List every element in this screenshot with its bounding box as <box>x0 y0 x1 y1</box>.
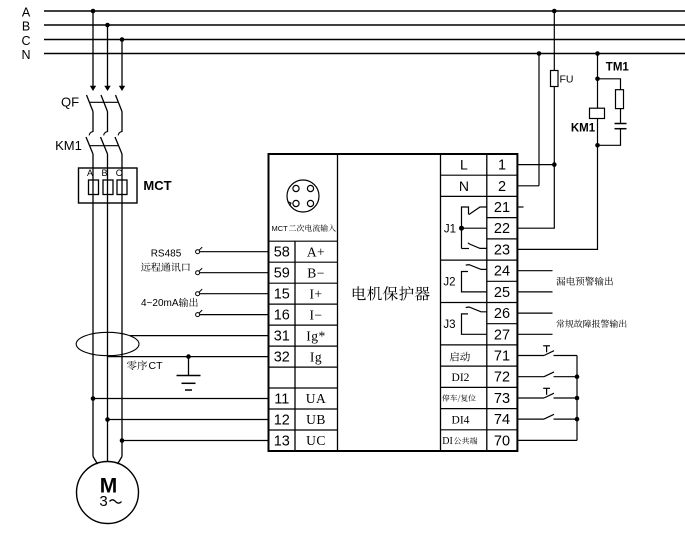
phase bus line A <box>44 10 685 12</box>
divider center/right labels <box>440 154 442 451</box>
4-20mA label CJK <box>179 298 198 307</box>
svg-text:UA: UA <box>306 391 327 406</box>
terminal number 1 right <box>498 158 506 174</box>
right label divider y429.8 <box>441 429 487 431</box>
terminal number 25 right <box>494 285 510 301</box>
terminal number 58 <box>274 245 290 261</box>
svg-text:26: 26 <box>494 306 510 322</box>
svg-text:15: 15 <box>274 287 290 303</box>
label gonggongduan CJK <box>454 437 478 444</box>
phase bus line C <box>44 39 685 41</box>
left block divider 5 <box>269 345 338 347</box>
svg-text:I−: I− <box>309 307 322 322</box>
wire KM1 bottom to terminal 23 <box>517 145 597 249</box>
svg-text:B: B <box>101 168 107 178</box>
phase bus label B <box>22 20 30 34</box>
svg-text:UC: UC <box>306 433 326 448</box>
contactor KM1 pole B fixed contact arc <box>104 132 108 136</box>
connector pin 2 <box>307 185 313 191</box>
wire 32 junction to ground <box>186 354 191 359</box>
terminal number 23 right <box>494 242 510 258</box>
right label divider y344.9 <box>441 344 487 346</box>
node DI3 bus <box>575 396 580 401</box>
CT MCT window C <box>117 180 127 195</box>
wire terminal 1 to FU node <box>517 164 554 166</box>
contactor KM1 pole C fixed contact arc <box>118 132 122 136</box>
phase bus label N <box>21 48 30 62</box>
svg-text:DI4: DI4 <box>452 414 470 426</box>
svg-text:J2: J2 <box>443 276 455 288</box>
right number divider y366.1 <box>487 365 518 367</box>
svg-text:RS485: RS485 <box>151 248 182 259</box>
junction on bus N at terminal-2 drop <box>537 51 542 56</box>
switch DI4 (74) <box>517 414 577 419</box>
wire phase A into motor <box>93 457 98 465</box>
terminal number 16 <box>274 308 290 324</box>
wire drop from bus C to QF <box>121 40 123 87</box>
terminal label A+ <box>307 244 325 259</box>
divider right labels/numbers <box>486 154 488 451</box>
breaker QF linkage bar <box>90 101 119 103</box>
divider left labels/center <box>337 154 339 451</box>
open terminal circle 15 <box>196 289 203 296</box>
motor M circle <box>77 462 139 524</box>
protector title CJK <box>353 286 430 300</box>
breaker QF pole A blade <box>87 95 94 112</box>
connector pin 4 <box>307 200 313 206</box>
right number divider y344.9 <box>487 344 518 346</box>
left block divider 6 <box>269 366 338 368</box>
node DI4 bus <box>575 417 580 422</box>
svg-text:25: 25 <box>494 285 510 301</box>
svg-text:32: 32 <box>274 350 290 366</box>
right number divider y196.4 <box>487 195 518 197</box>
CT MCT label A <box>87 168 93 178</box>
connector caption MCT <box>272 224 289 233</box>
terminal number 70 right <box>494 433 510 449</box>
svg-text:A+: A+ <box>307 244 325 259</box>
fuse FU body <box>551 71 559 87</box>
svg-text:C: C <box>21 34 30 48</box>
left block divider 9 <box>269 429 338 431</box>
svg-text:FU: FU <box>560 74 574 86</box>
RS485 port label CJK <box>141 262 190 271</box>
arrowhead A <box>90 86 96 91</box>
connector pin 1 <box>293 185 299 191</box>
connector pin 3 <box>293 200 299 206</box>
svg-text:73: 73 <box>494 391 510 407</box>
wire phase B into motor <box>107 457 109 462</box>
relay J2 label <box>443 276 455 288</box>
fuse FU label <box>560 74 574 86</box>
wire terminal 27 stub <box>517 333 552 335</box>
wire DI common (70) <box>517 439 577 441</box>
svg-text:71: 71 <box>494 349 510 365</box>
terminal number 13 <box>274 434 290 450</box>
terminal label Ig* <box>306 328 326 343</box>
svg-text:16: 16 <box>274 308 290 324</box>
label leakage-warning output <box>556 277 612 286</box>
relay J2 frame <box>462 272 487 292</box>
right number divider y429.8 <box>487 429 518 431</box>
4-20mA label latin <box>141 298 179 309</box>
svg-text:74: 74 <box>494 412 510 428</box>
wire phase A vertical <box>92 154 94 457</box>
junction on bus N at KM1 coil drop <box>595 51 600 56</box>
svg-text:J3: J3 <box>443 319 455 331</box>
left block divider 2 <box>269 282 338 284</box>
capacitor plate top <box>615 123 627 125</box>
terminal number 21 right <box>494 200 510 216</box>
right number divider y281.3 <box>487 280 518 282</box>
node KM1 top <box>595 77 600 82</box>
wire N drop vertical <box>538 54 540 186</box>
terminal number 73 right <box>494 391 510 407</box>
label DI2 <box>452 372 470 384</box>
junction on bus A <box>91 9 96 14</box>
relay J1 NC blade to 21 <box>469 207 487 215</box>
relay J2 blade <box>466 265 487 270</box>
terminal number 24 right <box>494 264 510 280</box>
svg-text:12: 12 <box>274 413 290 429</box>
contactor KM1 pole A fixed contact arc <box>89 132 93 136</box>
terminal number 12 <box>274 413 290 429</box>
breaker QF pole A post <box>92 112 94 133</box>
relay J1 NO hook <box>462 248 470 250</box>
label fault-alarm output <box>556 320 626 328</box>
svg-text:21: 21 <box>494 200 510 216</box>
contactor KM1 pole B blade <box>101 137 108 154</box>
terminal label UB <box>306 412 326 427</box>
terminal label I− <box>309 307 322 322</box>
motor 3-phase mark <box>99 493 121 510</box>
wire drop from bus A to QF <box>92 11 94 86</box>
right label divider y175.2 <box>441 174 487 176</box>
capacitor plate bottom <box>615 128 627 130</box>
svg-text:I+: I+ <box>309 286 322 301</box>
connector caption CJK <box>289 224 336 231</box>
contactor KM1 label <box>55 138 82 153</box>
relay J1 NO blade to 23 <box>468 243 487 249</box>
relay J3 frame <box>462 314 487 334</box>
left block divider 1 <box>269 261 338 263</box>
left block divider 8 <box>269 408 338 410</box>
switch stop/reset (73) pushbutton <box>517 388 577 398</box>
open terminal circle 59 <box>196 268 203 275</box>
ground bar3 <box>185 389 192 391</box>
svg-text:B−: B− <box>307 265 325 280</box>
stub terminal 21 <box>517 206 523 208</box>
terminal number 26 right <box>494 306 510 322</box>
wire TM1 branch top <box>598 79 621 90</box>
label tingche/fuwei <box>442 394 476 402</box>
wire terminal 31 to CT <box>130 335 269 337</box>
svg-text:27: 27 <box>494 327 510 343</box>
wire terminal 16 <box>200 314 269 316</box>
contactor KM1 linkage bar <box>90 145 119 147</box>
protector outer box <box>269 154 518 451</box>
ground lead <box>188 357 190 376</box>
phase bus line N <box>44 53 685 55</box>
left block divider 0 <box>269 240 338 242</box>
wire DI bus vertical <box>576 356 578 441</box>
phase bus line B <box>44 24 685 26</box>
right number divider y175.2 <box>487 174 518 176</box>
svg-text:N: N <box>21 48 30 62</box>
open terminal circle 16 <box>196 310 203 317</box>
svg-text:72: 72 <box>494 370 510 386</box>
coil KM1 body <box>590 108 605 118</box>
breaker QF pole B blade <box>101 95 108 112</box>
svg-text:L: L <box>460 157 468 173</box>
svg-text:B: B <box>22 20 30 34</box>
wire drop from bus B to QF <box>107 25 109 86</box>
svg-text:31: 31 <box>274 329 290 345</box>
svg-text:22: 22 <box>494 221 510 237</box>
terminal number 22 right <box>494 221 510 237</box>
svg-text:KM1: KM1 <box>55 138 82 153</box>
label DI of DI-common <box>442 436 453 447</box>
breaker QF label <box>61 95 79 110</box>
wire phase B vertical <box>107 154 109 457</box>
terminal number 71 right <box>494 349 510 365</box>
switch DI2 (72) <box>517 372 577 377</box>
terminal number 27 right <box>494 327 510 343</box>
right label divider y196.4 <box>441 195 487 197</box>
wire terminal 25 stub <box>517 291 552 293</box>
breaker QF pole C post <box>121 112 123 133</box>
arrowhead C <box>119 86 125 91</box>
zero-sequence CT label CJK <box>127 360 147 370</box>
svg-text:A: A <box>87 168 93 178</box>
terminal number 74 right <box>494 412 510 428</box>
right number divider y260.1 <box>487 259 518 261</box>
zero-sequence CT ellipse <box>76 332 139 355</box>
wire terminal 2 to N drop <box>517 185 539 187</box>
node KM1 bottom <box>595 143 600 148</box>
ground bar2 <box>182 382 196 384</box>
resistor TM1 body <box>616 90 624 109</box>
left block divider 4 <box>269 324 338 326</box>
terminal label Ig <box>310 349 322 364</box>
relay J3 label <box>443 319 455 331</box>
junction on bus B <box>105 23 110 28</box>
terminal number 32 <box>274 350 290 366</box>
wire N drop to KM1 branch <box>597 54 599 146</box>
terminal label B− <box>307 265 325 280</box>
relay J1 label <box>444 223 456 235</box>
terminal number 72 right <box>494 370 510 386</box>
left block divider 3 <box>269 303 338 305</box>
svg-text:J1: J1 <box>444 223 456 235</box>
svg-text:Ig: Ig <box>310 349 322 364</box>
terminal label UC <box>306 433 326 448</box>
svg-text:TM1: TM1 <box>606 61 630 73</box>
ground bar1 <box>177 375 201 377</box>
svg-text:QF: QF <box>61 95 79 110</box>
terminal number 11 <box>274 392 289 408</box>
svg-text:23: 23 <box>494 242 510 258</box>
svg-text:A: A <box>22 6 31 20</box>
CT MCT box <box>79 168 138 203</box>
connector circle <box>287 180 319 212</box>
CT MCT window B <box>103 180 113 195</box>
open terminal circle 58 <box>196 247 203 254</box>
contactor KM1 pole A blade <box>86 137 93 154</box>
motor letter M <box>100 474 118 497</box>
relay J1 common wire <box>462 227 487 229</box>
breaker QF pole B post <box>107 112 109 133</box>
terminal label L <box>460 157 468 173</box>
left block divider 7 <box>269 387 338 389</box>
svg-text:UB: UB <box>306 412 326 427</box>
svg-text:CT: CT <box>149 360 164 372</box>
arrowhead B <box>104 86 110 91</box>
svg-text:N: N <box>459 178 469 194</box>
wire phase C vertical <box>121 154 123 457</box>
right number divider y302.5 <box>487 302 518 304</box>
junction on bus A at fuse drop <box>552 9 557 14</box>
node L/FU junction <box>552 162 557 167</box>
svg-text:2: 2 <box>498 179 506 195</box>
label qidong <box>450 352 470 362</box>
wire terminal 15 <box>200 293 269 295</box>
wire capacitor to bottom node <box>598 129 621 146</box>
svg-text:Ig*: Ig* <box>306 328 326 343</box>
svg-text:MCT: MCT <box>143 178 171 193</box>
wire terminal 26 stub <box>517 312 552 314</box>
terminal label I+ <box>309 286 322 301</box>
right label divider y260.1 <box>441 259 487 261</box>
relay J1 armature <box>462 207 469 249</box>
TM1 label <box>606 61 630 73</box>
node phase B tap 12 <box>105 417 110 422</box>
phase bus label A <box>22 6 31 20</box>
relay J1 common node <box>459 226 464 231</box>
wire phase C into motor <box>118 457 123 465</box>
breaker QF pole C blade <box>116 95 123 112</box>
wire A drop to fuse <box>553 11 555 71</box>
right number divider y238.9 <box>487 238 518 240</box>
wire terminal 11 to phase A <box>93 398 269 400</box>
wire terminal 59 <box>200 272 269 274</box>
right label divider y408.6 <box>441 408 487 410</box>
CT MCT window A <box>89 180 99 195</box>
svg-text:4~20mA: 4~20mA <box>141 298 179 309</box>
node DI2 bus <box>575 374 580 379</box>
zero-sequence CT label CT <box>149 360 164 372</box>
wire terminal 12 to phase B <box>108 419 269 421</box>
terminal number 2 right <box>498 179 506 195</box>
label DI4 <box>452 414 470 426</box>
CT MCT name <box>143 178 171 193</box>
terminal label UA <box>306 391 327 406</box>
node phase C tap 13 <box>120 438 125 443</box>
wire terminal 13 to phase C <box>122 440 269 442</box>
terminal label N <box>459 178 469 194</box>
svg-text:1: 1 <box>498 158 506 174</box>
svg-text:59: 59 <box>274 266 290 282</box>
svg-text:DI: DI <box>442 436 453 447</box>
svg-text:MCT: MCT <box>272 224 289 233</box>
wire resistor to capacitor <box>620 109 622 123</box>
wire terminal 58 <box>200 251 269 253</box>
svg-text:11: 11 <box>274 392 289 408</box>
right label divider y387.4 <box>441 386 487 388</box>
connector notch <box>288 202 291 206</box>
svg-text:58: 58 <box>274 245 290 261</box>
svg-text:3: 3 <box>99 493 107 510</box>
svg-text:DI2: DI2 <box>452 372 470 384</box>
phase bus label C <box>21 34 30 48</box>
wire fuse to terminal 22 corner <box>517 87 554 229</box>
terminal number 15 <box>274 287 290 303</box>
terminal number 31 <box>274 329 290 345</box>
divider left numbers/labels <box>294 241 296 451</box>
switch start (71) pushbutton <box>517 346 577 356</box>
svg-text:KM1: KM1 <box>571 122 596 134</box>
wire terminal 24 stub <box>517 270 552 272</box>
right number divider y387.4 <box>487 386 518 388</box>
RS485 label <box>151 248 182 259</box>
contactor KM1 pole C blade <box>115 137 122 154</box>
right label divider y302.5 <box>441 302 487 304</box>
CT MCT label B <box>101 168 107 178</box>
right number divider y217.6 <box>487 217 518 219</box>
terminal number 59 <box>274 266 290 282</box>
wire terminal 32 to CT/ground <box>108 356 269 358</box>
right number divider y408.6 <box>487 408 518 410</box>
CT MCT label C <box>116 168 123 178</box>
node phase A tap 11 <box>91 396 96 401</box>
right number divider y323.7 <box>487 323 518 325</box>
coil KM1 label <box>571 122 596 134</box>
svg-text:70: 70 <box>494 433 510 449</box>
svg-text:13: 13 <box>274 434 290 450</box>
junction on bus C <box>120 37 125 42</box>
relay J3 blade <box>466 307 487 312</box>
right label divider y366.1 <box>441 365 487 367</box>
svg-text:24: 24 <box>494 264 510 280</box>
